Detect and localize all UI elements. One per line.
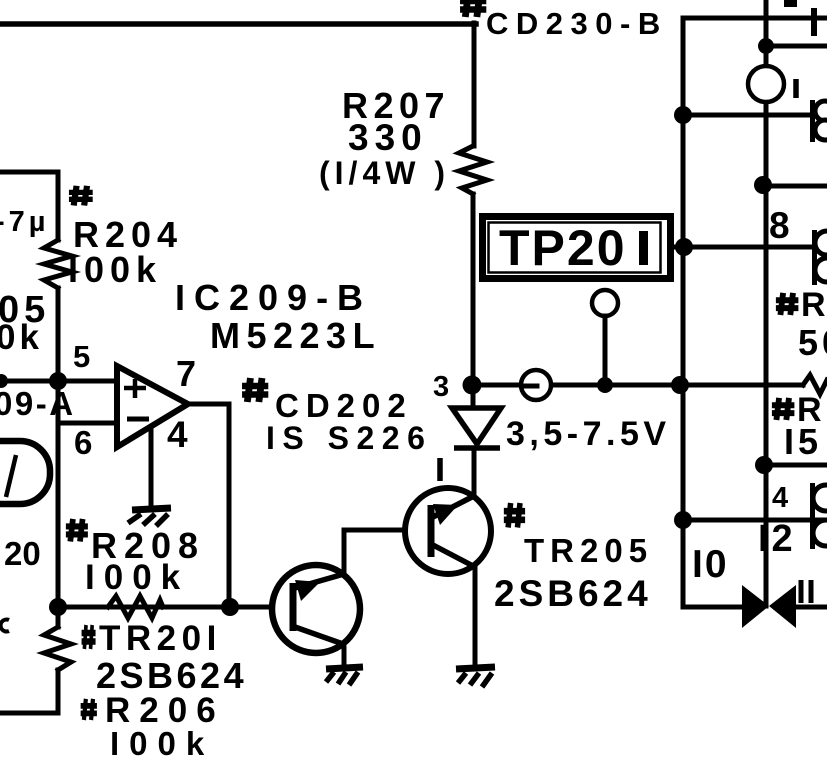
svg-text:TR20I: TR20I <box>99 619 222 658</box>
svg-text:5: 5 <box>73 339 94 374</box>
svg-text:(I/4W ): (I/4W ) <box>319 155 450 191</box>
svg-text:M5223L: M5223L <box>210 315 381 356</box>
svg-text:0k: 0k <box>0 318 43 357</box>
svg-text:2SB624: 2SB624 <box>494 573 652 614</box>
svg-text:2SB624: 2SB624 <box>96 655 247 696</box>
svg-text:CD230-B: CD230-B <box>486 6 668 41</box>
svg-text:I0: I0 <box>692 543 729 586</box>
svg-text:50: 50 <box>798 322 827 363</box>
svg-text:09-A: 09-A <box>0 385 76 422</box>
svg-text:3: 3 <box>433 371 453 403</box>
svg-text:20: 20 <box>4 535 41 572</box>
svg-text:I5: I5 <box>784 421 822 462</box>
svg-text:IC209-B: IC209-B <box>175 277 372 318</box>
svg-text:4: 4 <box>772 482 792 514</box>
svg-text:330: 330 <box>348 117 428 158</box>
svg-text:-7µ: -7µ <box>0 206 50 238</box>
svg-text:I00k: I00k <box>110 725 214 762</box>
svg-text:7: 7 <box>176 353 200 394</box>
svg-text:CD202: CD202 <box>275 387 413 424</box>
svg-text:I00k: I00k <box>85 558 189 597</box>
svg-text:TR205: TR205 <box>524 532 653 569</box>
svg-text:3,5-7.5V: 3,5-7.5V <box>506 415 671 453</box>
svg-text:8: 8 <box>769 205 794 246</box>
svg-text:4: 4 <box>167 414 192 455</box>
svg-text:I2: I2 <box>758 518 796 560</box>
svg-text:I00k: I00k <box>68 249 162 290</box>
svg-text:IS S226: IS S226 <box>266 420 432 456</box>
svg-text:TP20: TP20 <box>499 220 627 276</box>
svg-text:R: R <box>801 286 827 324</box>
svg-text:6: 6 <box>74 424 96 461</box>
